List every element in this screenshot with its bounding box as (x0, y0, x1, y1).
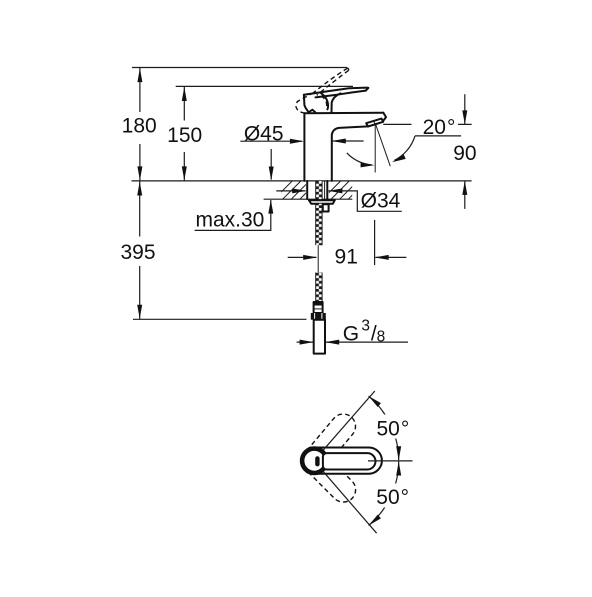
horizontal centerline (368, 460, 413, 462)
20° leader with arc arrow (415, 135, 461, 137)
braided hose segment in hole (316, 181, 322, 199)
dim 90 bottom arrow (464, 181, 466, 209)
label 180 (123, 112, 157, 144)
extension line top (180) (132, 67, 347, 69)
svg-text:Ø45: Ø45 (244, 122, 284, 145)
label 50° lower (374, 484, 414, 508)
shank inner line (324, 181, 326, 199)
svg-text:50°: 50° (377, 417, 410, 440)
hose end collar (314, 302, 323, 313)
max.30 upper arrow (points down at counter top) (270, 149, 272, 180)
handle dashed knuckle right arc (321, 96, 327, 109)
dashed handle position lower (50° swing) (308, 454, 361, 507)
svg-text:3: 3 (361, 318, 370, 335)
solid handle blade bottom edge (316, 91, 366, 98)
extension line (150) (176, 85, 353, 87)
shank tube wall left (306, 181, 308, 199)
braided hose upper segment (316, 204, 322, 246)
handle dashed knuckle left outline (296, 93, 314, 113)
counter hatch left (274, 181, 318, 199)
50° leg upper (324, 391, 375, 450)
handle dashed raised blade lower edge (317, 70, 349, 95)
svg-text:180: 180 (122, 115, 157, 138)
solid handle tip end (366, 88, 369, 91)
20° vertical ref line (374, 124, 376, 172)
solid handle neck inner curve (321, 93, 329, 110)
20° slanted stream line (376, 125, 391, 166)
label 20° (412, 117, 459, 136)
solid handle top edge (knuckle to tip) (304, 88, 368, 95)
svg-text:G: G (343, 323, 359, 346)
svg-text:20°: 20° (423, 116, 456, 139)
counter top line (132, 180, 472, 182)
handle dashed raised blade upper edge (314, 68, 348, 92)
handle dashed blade tip cap (348, 68, 349, 70)
20° left arc arrow (347, 153, 372, 165)
Ø45 right arrow (332, 140, 363, 142)
Ø34 left arrow (276, 190, 305, 192)
dim line 180 (139, 68, 141, 181)
svg-text:150: 150 (167, 124, 202, 147)
dim 91 (288, 256, 317, 258)
ext line 91 right (374, 220, 376, 265)
50° leg lower (324, 472, 377, 533)
label 395 (119, 237, 157, 267)
aerator divider (374, 121, 376, 125)
dim line 395 (139, 181, 141, 319)
outer stadium (handle top view) (311, 448, 382, 474)
counter bottom line (264, 198, 353, 200)
spout tip bevel and end face (382, 113, 386, 122)
dashed handle position upper (50° swing) (307, 409, 361, 466)
mounting flange (309, 200, 335, 204)
svg-text:90: 90 (453, 142, 476, 165)
body top edge (304, 112, 383, 115)
50° arc lower (369, 462, 399, 526)
label 50° upper (374, 415, 413, 439)
svg-text:Ø34: Ø34 (361, 190, 401, 213)
extension line spout outlet (90 top) (383, 123, 471, 125)
body circle (thick) (302, 449, 326, 473)
spout underside (332, 126, 368, 180)
label 150 (167, 121, 202, 153)
inner stadium (323, 453, 376, 469)
G3/8 connection tube (314, 320, 325, 354)
svg-text:50°: 50° (376, 486, 409, 509)
Ø34 right arrow + leader (328, 191, 401, 211)
dim 90 top arrow (464, 94, 466, 124)
leader Ø45 (240, 140, 302, 142)
dim G3/8 (297, 341, 313, 343)
solid handle neck front curve (332, 93, 341, 112)
svg-text:max.30: max.30 (195, 208, 264, 231)
mounting nut piece (323, 204, 329, 211)
leader max.30 (195, 200, 271, 230)
braided hose lower segment (316, 273, 322, 303)
solid handle knuckle left and bottom with V notch (304, 95, 316, 113)
svg-text:8: 8 (377, 329, 386, 346)
center bar (315, 458, 319, 464)
svg-text:395: 395 (120, 241, 155, 264)
svg-text:91: 91 (335, 245, 358, 268)
dim line 150 (183, 86, 185, 180)
counter hatch right (322, 181, 366, 199)
aerator slanted slot (366, 119, 383, 127)
hose centerline in gap (317, 243, 319, 273)
shank tube wall right (326, 181, 328, 199)
extension line bottom (395) (133, 318, 307, 320)
hose end nut (311, 313, 326, 320)
body left edge (303, 113, 305, 181)
50° arc upper (369, 396, 399, 460)
